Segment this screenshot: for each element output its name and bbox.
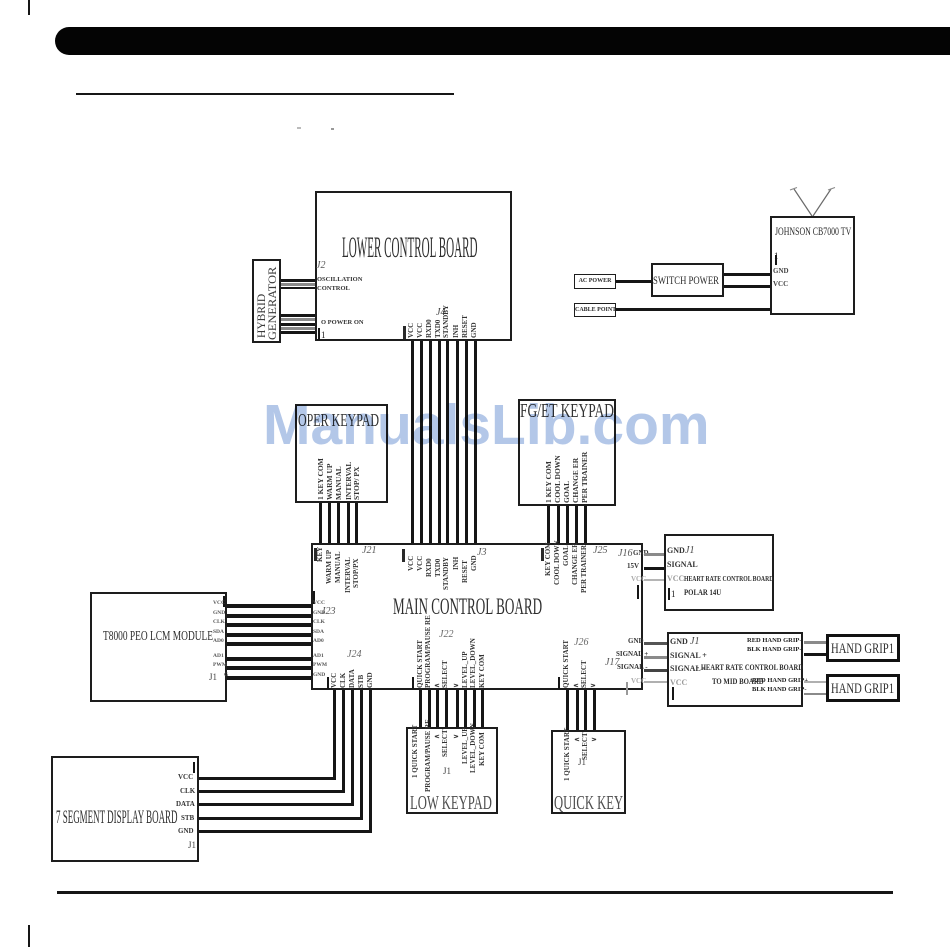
J16 pin1 tick bbox=[637, 585, 639, 599]
box OPER KEYPAD bbox=[295, 404, 388, 503]
box QUICK KEY bbox=[551, 730, 626, 814]
box JOHNSON CB7000 TV bbox=[770, 216, 855, 315]
header underline bbox=[76, 93, 454, 95]
J3 pin labels bbox=[408, 556, 415, 571]
connector J2 label bbox=[316, 261, 325, 271]
J3 pin 1 tick bbox=[402, 549, 405, 562]
module J1 label bbox=[209, 673, 217, 682]
LOW KEYPAD pin labels bbox=[412, 725, 419, 778]
J2 OSCILLATION CONTROL label bbox=[317, 277, 362, 284]
page corner tick bottom-left bbox=[28, 925, 30, 947]
J23 pin1 tick bbox=[313, 591, 315, 604]
J4 pin 1 tick bbox=[403, 326, 406, 339]
J25 pin labels bbox=[545, 542, 552, 576]
wires to hand grip lower bbox=[804, 681, 826, 683]
box heart rate to mid board bbox=[667, 632, 803, 707]
TV pin VCC bbox=[773, 281, 788, 288]
wire SWITCH POWER to TV (GND) bbox=[724, 273, 770, 276]
connector J21 label bbox=[362, 546, 376, 556]
J26 pin1 tick bbox=[558, 677, 560, 689]
TV antenna bbox=[770, 180, 860, 220]
J24 pin labels bbox=[331, 673, 338, 688]
J22 pin labels bbox=[417, 640, 424, 688]
J23 pin labels bbox=[313, 601, 325, 607]
connector J3 label bbox=[477, 548, 486, 558]
faint specks bbox=[297, 127, 301, 129]
box FG/ET KEYPAD bbox=[518, 399, 616, 506]
quick key J1 label bbox=[578, 758, 586, 767]
wires LCM to J23 (8) bbox=[227, 604, 311, 608]
wires J22 to LOW KEYPAD (8) bbox=[419, 690, 422, 727]
FG/ET KEYPAD pin labels bbox=[545, 461, 553, 503]
header black bar bbox=[55, 27, 950, 55]
connector J23 label bbox=[321, 607, 335, 617]
J21 pin 1 tick bbox=[314, 548, 317, 561]
footer line bbox=[57, 891, 893, 894]
wires J26 to QUICK KEY (4) bbox=[566, 690, 569, 730]
J25 pin 1 tick bbox=[541, 548, 544, 561]
wire bundle J2 (generator to lower board) bbox=[281, 279, 315, 282]
display pin1 tick bbox=[193, 762, 195, 773]
display J1 label bbox=[188, 841, 196, 850]
J17 wires to mid board box bbox=[644, 642, 667, 645]
grip pin labels upper bbox=[747, 638, 803, 645]
connector J4 label bbox=[436, 308, 445, 318]
module pin1 tick bbox=[223, 596, 225, 607]
box heart rate receiver bbox=[664, 534, 774, 611]
wires OPER KEYPAD to J21 bbox=[319, 503, 322, 543]
TV pin GND bbox=[773, 268, 789, 275]
TV pin 1 tick bbox=[774, 252, 779, 261]
J16 wires to receiver bbox=[644, 553, 664, 556]
watermark bbox=[263, 392, 713, 458]
connector J25 label bbox=[593, 546, 607, 556]
wire AC POWER to SWITCH POWER bbox=[616, 280, 651, 283]
page corner tick top-left bbox=[28, 0, 30, 15]
J4 pin labels bbox=[408, 323, 415, 338]
J24 pin1 tick bbox=[327, 677, 329, 689]
keypad J1 label bbox=[443, 767, 451, 776]
wires J4-J3 bbox=[411, 341, 414, 543]
box 7 SEGMENT DISPLAY BOARD bbox=[51, 756, 199, 862]
module pin labels bbox=[213, 601, 225, 607]
box AC POWER bbox=[574, 274, 616, 289]
connector J26 label bbox=[574, 638, 588, 648]
J26 pin labels bbox=[563, 640, 570, 688]
box SWITCH POWER bbox=[651, 263, 724, 297]
wires to hand grip upper bbox=[804, 641, 826, 644]
box LOW KEYPAD bbox=[406, 727, 498, 814]
box HAND GRIP1 upper bbox=[826, 634, 900, 662]
box LOWER CONTROL BOARD bbox=[315, 191, 512, 341]
wire CABLE POINT to TV bbox=[616, 308, 770, 311]
OPER KEYPAD pin labels bbox=[317, 458, 325, 500]
connector J22 label bbox=[439, 630, 453, 640]
box HYBRID GENERATOR bbox=[252, 259, 281, 343]
wire bundle power (generator to lower board) bbox=[281, 314, 315, 317]
J21 pin labels bbox=[317, 547, 324, 562]
connector J24 label bbox=[347, 650, 361, 660]
O POWER ON label bbox=[321, 320, 364, 327]
grip pin labels lower bbox=[752, 678, 808, 685]
box T8000 PEO LCM MODULE bbox=[90, 592, 227, 702]
pin1 tick J1 lower board bbox=[318, 328, 320, 340]
J17 pin1 tick bbox=[626, 682, 628, 695]
connector J17 label bbox=[605, 658, 619, 668]
QUICK KEY pin labels bbox=[564, 728, 571, 781]
wire SWITCH POWER to TV (VCC) bbox=[724, 285, 770, 288]
display pin labels bbox=[178, 774, 193, 781]
box MAIN CONTROL BOARD bbox=[311, 543, 643, 690]
wires FG/ET KEYPAD to J25 bbox=[547, 506, 550, 543]
box CABLE POINT bbox=[574, 303, 616, 317]
box HAND GRIP1 lower bbox=[826, 674, 900, 702]
connector J16 label bbox=[618, 549, 632, 559]
wires J24 to display (L shaped) bbox=[333, 690, 336, 778]
J22 pin1 tick bbox=[412, 677, 414, 689]
